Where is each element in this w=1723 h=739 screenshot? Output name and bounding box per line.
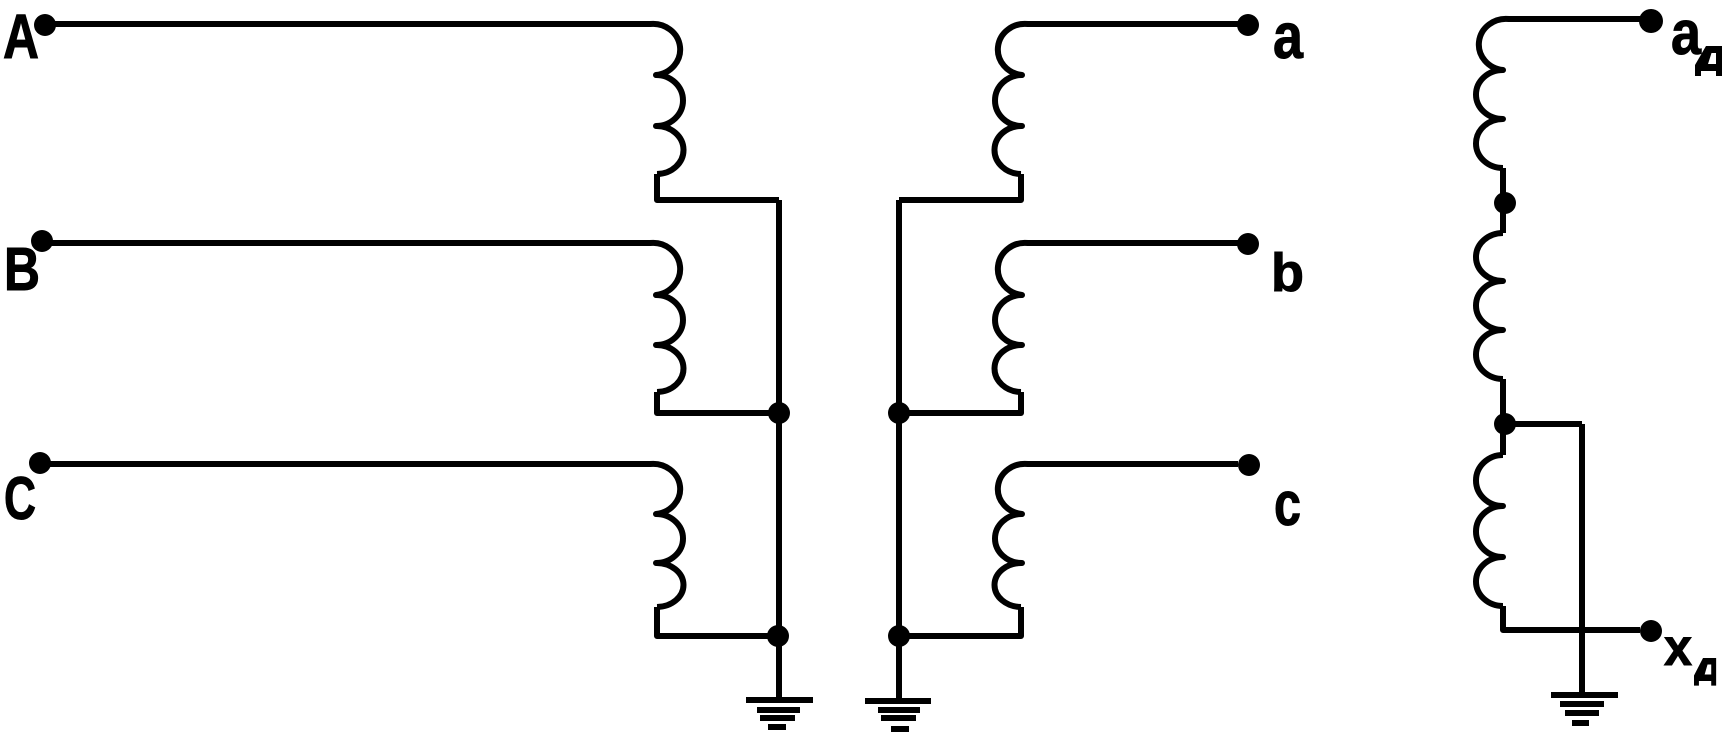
wire winding A bottom to primary neutral bus (657, 174, 779, 200)
junction secondary neutral with winding c (888, 625, 910, 647)
wire phase C lead (40, 461, 651, 467)
junction primary neutral with winding B (768, 402, 790, 424)
wire winding a bottom to secondary neutral bus (899, 174, 1021, 200)
svg-text:b: b (1271, 243, 1304, 303)
wire a_d lead (1508, 16, 1640, 22)
wire secondary neutral bus (896, 200, 902, 699)
secondary winding phase a (994, 24, 1028, 174)
tap node 2 (1494, 413, 1516, 435)
svg-text:C: C (4, 465, 36, 532)
secondary winding phase b (995, 243, 1028, 392)
svg-text:A: A (3, 2, 39, 72)
wire phase B lead (42, 240, 651, 246)
wire phase A lead (45, 21, 651, 27)
wire tap segment 2 (1500, 379, 1506, 455)
wire winding B bottom to primary neutral bus (657, 392, 779, 413)
node b terminal dot (1237, 233, 1259, 255)
node B terminal dot (31, 230, 53, 252)
ground auxiliary branch (1551, 695, 1618, 723)
wire phase a lead (1027, 21, 1238, 27)
node x_d terminal dot (1640, 620, 1662, 642)
wire tap segment 1 (1500, 168, 1506, 233)
ground secondary neutral (865, 701, 931, 729)
wire ground branch vertical (1579, 424, 1585, 694)
wire winding C bottom to primary neutral bus (657, 607, 779, 636)
node a terminal dot (1237, 14, 1259, 36)
label x_d subscript (1694, 658, 1716, 686)
wire winding c bottom to secondary neutral bus (899, 607, 1021, 636)
junction primary neutral with winding C (767, 625, 789, 647)
label a_d subscript (1695, 46, 1722, 76)
tap node 1 (1494, 192, 1516, 214)
svg-text:c: c (1274, 470, 1301, 539)
svg-text:B: B (4, 235, 40, 303)
wire winding bottom to x_d (1503, 606, 1640, 630)
wire phase c lead (1027, 461, 1238, 467)
wire tap 2 to ground branch (1504, 421, 1582, 427)
wire phase b lead (1027, 240, 1238, 246)
junction secondary neutral with winding b (888, 402, 910, 424)
wire winding b bottom to secondary neutral bus (899, 392, 1021, 413)
primary winding phase A (650, 24, 684, 174)
wire primary neutral bus (776, 200, 782, 698)
primary winding phase C (650, 464, 683, 607)
node C terminal dot (29, 452, 51, 474)
node a_d terminal dot (1639, 9, 1663, 33)
auxiliary winding section 3 (1476, 455, 1503, 606)
ground primary neutral (746, 700, 813, 727)
svg-text:a: a (1273, 0, 1303, 72)
primary winding phase B (650, 243, 683, 392)
node A terminal dot (34, 14, 56, 36)
svg-text:a: a (1671, 0, 1701, 68)
secondary winding phase c (995, 464, 1028, 607)
auxiliary winding section 1 (1476, 19, 1509, 168)
node c terminal dot (1238, 454, 1260, 476)
auxiliary winding section 2 (1476, 233, 1503, 379)
svg-text:x: x (1664, 619, 1692, 677)
